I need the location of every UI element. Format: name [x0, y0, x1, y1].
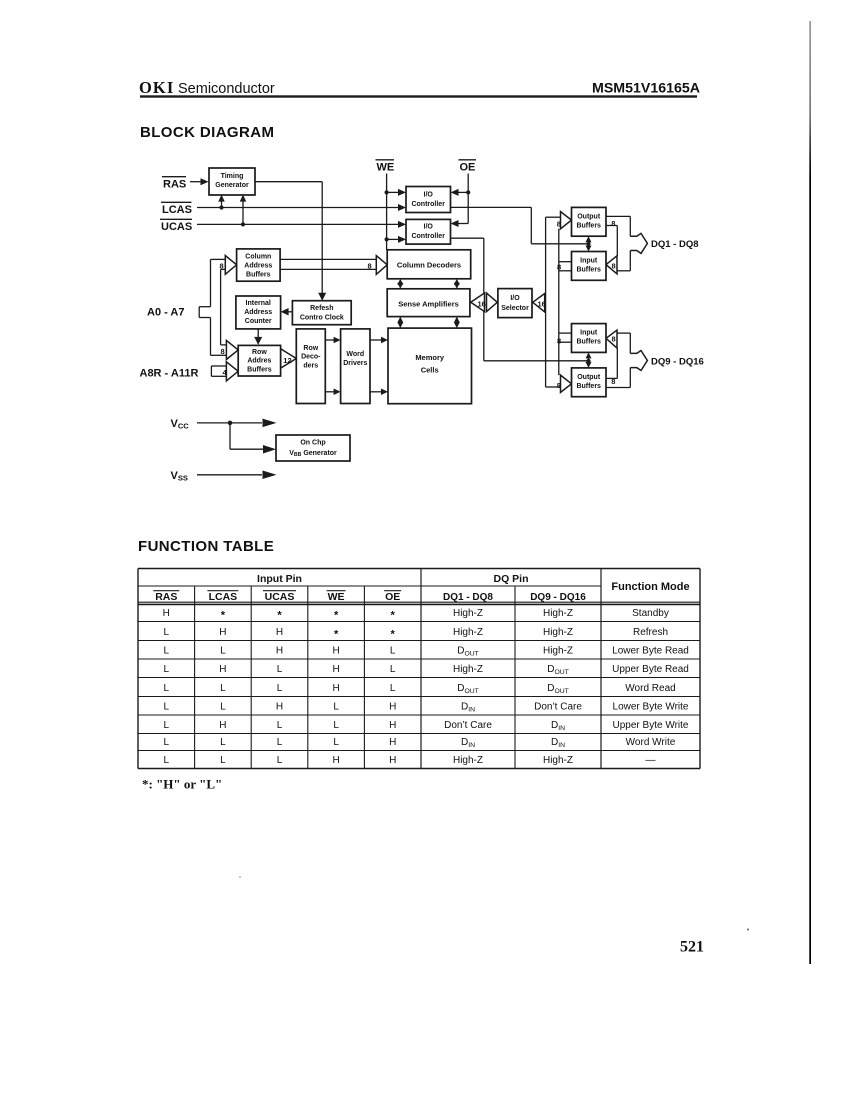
- svg-text:8: 8: [221, 347, 225, 356]
- svg-text:H: H: [219, 664, 226, 675]
- svg-text:Word Read: Word Read: [625, 683, 675, 694]
- svg-text:Output: Output: [577, 213, 601, 220]
- svg-text:H: H: [276, 702, 283, 713]
- svg-text:H: H: [389, 737, 396, 748]
- svg-text:Word Write: Word Write: [626, 737, 676, 748]
- svg-text:L: L: [277, 737, 283, 748]
- svg-text:FUNCTION TABLE: FUNCTION TABLE: [138, 538, 274, 555]
- svg-text:Buffers: Buffers: [576, 383, 601, 390]
- svg-text:Don’t Care: Don’t Care: [444, 720, 492, 731]
- svg-text:Input: Input: [580, 330, 598, 337]
- svg-text:DQ9 - DQ16: DQ9 - DQ16: [530, 592, 586, 603]
- svg-text:Output: Output: [577, 374, 601, 381]
- svg-text:L: L: [220, 737, 226, 748]
- svg-text:*: *: [391, 629, 396, 641]
- svg-text:High-Z: High-Z: [453, 664, 483, 675]
- svg-text:L: L: [220, 702, 226, 713]
- svg-text:Buffers: Buffers: [576, 222, 601, 229]
- svg-text:Buffers: Buffers: [576, 339, 601, 346]
- svg-text:L: L: [390, 646, 396, 657]
- svg-text:Function Mode: Function Mode: [611, 581, 689, 593]
- svg-text:L: L: [277, 720, 283, 731]
- svg-text:Timing: Timing: [221, 173, 244, 180]
- svg-text:Deco-: Deco-: [301, 354, 321, 361]
- svg-text:Selector: Selector: [501, 305, 529, 312]
- svg-text:Address: Address: [244, 263, 272, 270]
- svg-text:—: —: [646, 755, 656, 766]
- svg-text:Contro Clock: Contro Clock: [300, 315, 344, 322]
- svg-text:L: L: [220, 683, 226, 694]
- svg-text:Address: Address: [244, 309, 272, 316]
- svg-text:Row: Row: [303, 345, 318, 352]
- svg-text:*: *: [334, 610, 339, 622]
- svg-text:OE: OE: [460, 162, 476, 174]
- svg-text:A8R - A11R: A8R - A11R: [140, 367, 199, 379]
- svg-text:521: 521: [680, 939, 704, 956]
- svg-text:H: H: [332, 683, 339, 694]
- svg-text:8: 8: [368, 261, 372, 270]
- svg-text:Buffers: Buffers: [247, 366, 272, 373]
- svg-text:12: 12: [283, 356, 291, 365]
- svg-text:High-Z: High-Z: [543, 608, 573, 619]
- svg-text:16: 16: [538, 300, 546, 309]
- svg-text:High-Z: High-Z: [543, 627, 573, 638]
- svg-text:L: L: [164, 664, 170, 675]
- svg-text:Cells: Cells: [421, 365, 439, 374]
- svg-text:DQ1 - DQ8: DQ1 - DQ8: [443, 592, 493, 603]
- svg-text:MSM51V16165A: MSM51V16165A: [592, 81, 700, 97]
- svg-text:High-Z: High-Z: [453, 755, 483, 766]
- svg-text:I/O: I/O: [510, 295, 520, 302]
- svg-text:L: L: [164, 683, 170, 694]
- svg-text:I/O: I/O: [424, 224, 434, 231]
- svg-text:L: L: [333, 720, 339, 731]
- svg-text:LCAS: LCAS: [162, 204, 192, 216]
- svg-text:Lower Byte Write: Lower Byte Write: [613, 702, 689, 713]
- svg-text:WE: WE: [328, 591, 345, 603]
- svg-text:L: L: [164, 702, 170, 713]
- svg-text:L: L: [220, 646, 226, 657]
- svg-text:8: 8: [612, 335, 616, 344]
- svg-text:L: L: [277, 755, 283, 766]
- svg-text:8: 8: [557, 381, 561, 390]
- svg-text:High-Z: High-Z: [453, 627, 483, 638]
- svg-text:Drivers: Drivers: [343, 360, 367, 367]
- svg-text:RAS: RAS: [163, 179, 186, 191]
- svg-text:16: 16: [478, 300, 486, 309]
- svg-text:L: L: [164, 646, 170, 657]
- svg-text:8: 8: [557, 337, 561, 346]
- svg-text:DQ Pin: DQ Pin: [493, 573, 528, 585]
- svg-text:8: 8: [557, 220, 561, 229]
- svg-text:OKI: OKI: [139, 78, 174, 97]
- svg-text:H: H: [332, 646, 339, 657]
- svg-text:Generator: Generator: [215, 182, 249, 189]
- svg-text:L: L: [333, 702, 339, 713]
- svg-text:Buffers: Buffers: [246, 272, 271, 279]
- svg-text:Semiconductor: Semiconductor: [178, 81, 275, 97]
- svg-text:*: *: [334, 629, 339, 641]
- svg-text:L: L: [390, 664, 396, 675]
- svg-text:H: H: [163, 608, 170, 619]
- svg-text:High-Z: High-Z: [453, 608, 483, 619]
- svg-text:Refresh: Refresh: [633, 627, 668, 638]
- svg-text:H: H: [219, 720, 226, 731]
- svg-text:Sense Amplifiers: Sense Amplifiers: [398, 299, 459, 308]
- svg-text:I/O: I/O: [424, 192, 434, 199]
- svg-text:Column: Column: [245, 254, 271, 261]
- svg-text:On Chp: On Chp: [300, 440, 325, 447]
- svg-text:Row: Row: [252, 349, 267, 356]
- svg-text:Refesh: Refesh: [310, 305, 333, 312]
- svg-text:8: 8: [220, 261, 224, 270]
- svg-text:H: H: [276, 627, 283, 638]
- svg-text:8: 8: [612, 262, 616, 271]
- svg-text:L: L: [220, 755, 226, 766]
- svg-text:Upper Byte Write: Upper Byte Write: [613, 720, 689, 731]
- svg-text:Don’t Care: Don’t Care: [534, 702, 582, 713]
- svg-text:H: H: [276, 646, 283, 657]
- svg-text:8: 8: [557, 262, 561, 271]
- svg-text:High-Z: High-Z: [543, 646, 573, 657]
- svg-text:Lower Byte Read: Lower Byte Read: [612, 646, 689, 657]
- svg-text:L: L: [390, 683, 396, 694]
- svg-text:L: L: [164, 720, 170, 731]
- svg-text:ders: ders: [303, 362, 318, 369]
- svg-text:Standby: Standby: [632, 608, 669, 619]
- svg-text:Input: Input: [580, 258, 598, 265]
- svg-text:WE: WE: [377, 162, 395, 174]
- svg-text:*: *: [277, 610, 282, 622]
- svg-text:Memory: Memory: [415, 353, 445, 362]
- svg-text:BLOCK DIAGRAM: BLOCK DIAGRAM: [140, 124, 274, 141]
- svg-text:Word: Word: [346, 351, 364, 358]
- svg-text:H: H: [332, 664, 339, 675]
- svg-text:*: *: [391, 610, 396, 622]
- svg-text:*: "H" or "L": *: "H" or "L": [142, 777, 222, 792]
- svg-text:L: L: [164, 627, 170, 638]
- svg-text:L: L: [164, 755, 170, 766]
- svg-text:8: 8: [611, 377, 615, 386]
- svg-text:Column Decoders: Column Decoders: [397, 260, 461, 269]
- svg-text:DQ1 - DQ8: DQ1 - DQ8: [651, 239, 699, 250]
- svg-text:H: H: [389, 755, 396, 766]
- svg-text:L: L: [277, 664, 283, 675]
- svg-text:Input Pin: Input Pin: [257, 573, 302, 585]
- svg-text:DQ9 - DQ16: DQ9 - DQ16: [651, 357, 704, 368]
- svg-text:*: *: [221, 610, 226, 622]
- svg-text:High-Z: High-Z: [543, 755, 573, 766]
- svg-text:Upper Byte Read: Upper Byte Read: [612, 664, 689, 675]
- svg-text:LCAS: LCAS: [209, 591, 238, 603]
- svg-text:Controller: Controller: [411, 201, 445, 208]
- svg-text:L: L: [277, 683, 283, 694]
- svg-text:Controller: Controller: [411, 233, 445, 240]
- svg-text:Internal: Internal: [246, 300, 271, 307]
- svg-text:Addres: Addres: [247, 358, 271, 365]
- svg-text:UCAS: UCAS: [265, 591, 295, 603]
- svg-text:H: H: [332, 755, 339, 766]
- svg-text:Counter: Counter: [245, 318, 272, 325]
- svg-text:H: H: [389, 720, 396, 731]
- svg-text:H: H: [219, 627, 226, 638]
- svg-text:A0 - A7: A0 - A7: [147, 306, 185, 318]
- svg-text:VBB Generator: VBB Generator: [289, 450, 337, 458]
- svg-text:L: L: [333, 737, 339, 748]
- svg-text:8: 8: [611, 219, 615, 228]
- svg-text:L: L: [164, 737, 170, 748]
- svg-text:RAS: RAS: [155, 591, 177, 603]
- svg-text:Buffers: Buffers: [576, 267, 601, 274]
- svg-text:H: H: [389, 702, 396, 713]
- svg-text:OE: OE: [385, 591, 400, 603]
- svg-text:UCAS: UCAS: [161, 221, 192, 233]
